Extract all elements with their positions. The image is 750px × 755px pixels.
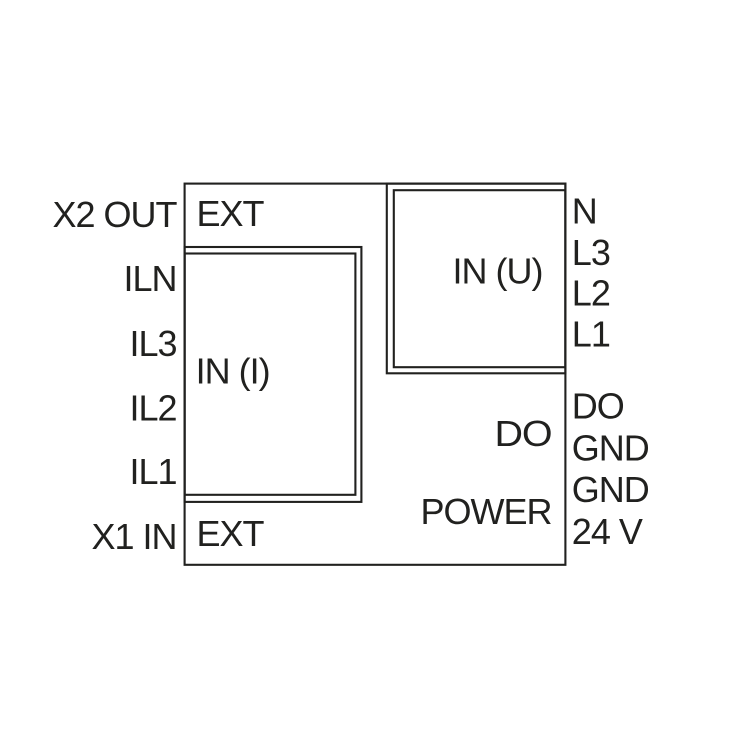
svg-text:DO: DO [572,386,624,427]
svg-text:IL1: IL1 [129,451,176,492]
svg-text:N: N [572,191,597,232]
svg-text:GND: GND [572,427,649,468]
svg-text:X2 OUT: X2 OUT [52,194,177,235]
svg-text:POWER: POWER [420,491,551,532]
svg-text:L3: L3 [572,232,610,273]
svg-text:EXT: EXT [197,193,265,234]
svg-text:IN (I): IN (I) [196,350,270,391]
svg-text:IL3: IL3 [129,323,176,364]
svg-text:X1 IN: X1 IN [91,516,176,557]
svg-text:IL2: IL2 [129,388,176,429]
svg-text:DO: DO [495,413,552,454]
svg-text:EXT: EXT [197,513,265,554]
svg-text:24 V: 24 V [572,511,643,552]
svg-text:L2: L2 [572,273,610,314]
svg-text:ILN: ILN [123,258,176,299]
svg-text:GND: GND [572,469,649,510]
svg-text:L1: L1 [572,313,610,354]
svg-text:IN (U): IN (U) [453,251,543,292]
